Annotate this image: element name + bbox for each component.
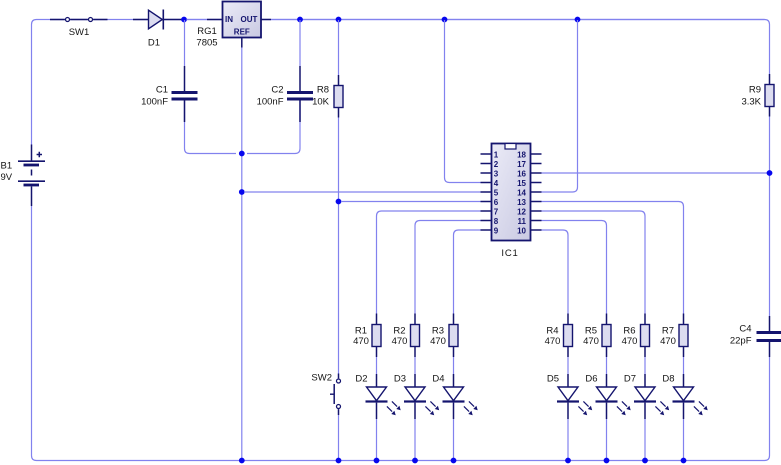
svg-text:R2: R2 bbox=[393, 326, 405, 337]
svg-text:D5: D5 bbox=[547, 374, 559, 385]
wire R9 to OSC node bbox=[769, 117, 771, 317]
wire pin16 OSC bbox=[542, 172, 770, 174]
svg-text:RG1: RG1 bbox=[197, 26, 217, 37]
wire D6 to rail bbox=[606, 419, 608, 461]
svg-text:R7: R7 bbox=[662, 326, 674, 337]
svg-text:D2: D2 bbox=[355, 374, 367, 385]
pin 7 bbox=[481, 210, 492, 212]
resistor R8 bbox=[334, 75, 343, 118]
wire R3 to D4 bbox=[453, 357, 455, 374]
svg-text:470: 470 bbox=[392, 336, 408, 347]
top rail 5V bbox=[32, 20, 770, 146]
node Vss ground bbox=[239, 189, 245, 195]
resistor R2 bbox=[411, 314, 420, 358]
pin 12 bbox=[531, 210, 542, 212]
resistor R9 bbox=[765, 74, 774, 117]
wire D2 to rail bbox=[376, 419, 378, 461]
svg-text:C4: C4 bbox=[739, 324, 751, 335]
node SW2 bottom bbox=[336, 458, 342, 464]
svg-text:SW2: SW2 bbox=[311, 373, 332, 384]
capacitor C1 bbox=[172, 66, 198, 122]
pin 10 bbox=[531, 229, 542, 231]
svg-text:18: 18 bbox=[517, 150, 526, 159]
wire C2 branch bbox=[299, 20, 301, 66]
svg-text:470: 470 bbox=[545, 336, 561, 347]
svg-text:R5: R5 bbox=[585, 326, 597, 337]
wire D3 to rail bbox=[414, 419, 416, 461]
svg-text:D7: D7 bbox=[624, 374, 636, 385]
wire R1 to D2 bbox=[376, 357, 378, 374]
LED D2 bbox=[366, 374, 401, 419]
node pin6 bbox=[336, 199, 342, 205]
resistor R1 bbox=[372, 314, 381, 358]
svg-text:470: 470 bbox=[583, 336, 599, 347]
wire R7 to D8 bbox=[683, 357, 685, 374]
svg-text:R9: R9 bbox=[749, 85, 761, 96]
svg-text:22pF: 22pF bbox=[730, 336, 752, 347]
node ground rail bbox=[239, 458, 245, 464]
pin 1 bbox=[481, 153, 492, 155]
wire pin13 to R7 bbox=[542, 202, 684, 314]
svg-text:OUT: OUT bbox=[241, 15, 258, 24]
LED D7 bbox=[634, 374, 669, 419]
node D4 rail bbox=[451, 458, 457, 464]
wire D5 to rail bbox=[567, 419, 569, 461]
wire D8 to rail bbox=[683, 419, 685, 461]
svg-text:REF: REF bbox=[234, 28, 250, 37]
LED D3 bbox=[404, 374, 439, 419]
svg-text:R4: R4 bbox=[546, 326, 558, 337]
node MCLR top bbox=[442, 17, 448, 23]
wire VDD to pin14 bbox=[542, 20, 578, 192]
svg-text:7: 7 bbox=[494, 207, 499, 216]
svg-text:9V: 9V bbox=[1, 172, 13, 183]
svg-text:13: 13 bbox=[517, 198, 526, 207]
wire pin12 to R6 bbox=[542, 211, 646, 314]
pin 9 bbox=[481, 229, 492, 231]
svg-text:14: 14 bbox=[517, 188, 526, 197]
switch SW1 bbox=[50, 18, 108, 22]
op IC1 chip body bbox=[492, 144, 531, 241]
svg-text:7805: 7805 bbox=[196, 38, 217, 49]
wire SW2 to rail bbox=[338, 415, 340, 461]
pin 13 bbox=[531, 201, 542, 203]
pin 16 bbox=[531, 172, 542, 174]
node D8 rail bbox=[681, 458, 687, 464]
svg-text:10: 10 bbox=[517, 226, 526, 235]
svg-text:4: 4 bbox=[494, 179, 499, 188]
pin 14 bbox=[531, 191, 542, 193]
svg-text:100nF: 100nF bbox=[141, 97, 168, 108]
resistor R7 bbox=[679, 314, 688, 358]
LED D6 bbox=[596, 374, 631, 419]
LED D8 bbox=[673, 374, 708, 419]
node D3 rail bbox=[412, 458, 418, 464]
svg-text:3: 3 bbox=[494, 169, 499, 178]
svg-text:470: 470 bbox=[660, 336, 676, 347]
wire D7 to rail bbox=[644, 419, 646, 461]
svg-text:16: 16 bbox=[517, 169, 526, 178]
pin REF lead bbox=[241, 38, 243, 48]
svg-text:12: 12 bbox=[517, 207, 526, 216]
node ground-caps bbox=[239, 151, 245, 157]
wire to RG1 IN bbox=[187, 19, 208, 21]
wire R2 to D3 bbox=[414, 357, 416, 374]
pin 18 bbox=[531, 153, 542, 155]
capacitor C4 bbox=[757, 316, 781, 357]
node D7 rail bbox=[642, 458, 648, 464]
node D6 rail bbox=[604, 458, 610, 464]
LED D5 bbox=[557, 374, 592, 419]
wire C1 branch bbox=[184, 20, 186, 66]
node R8 top bbox=[336, 17, 342, 23]
pin 6 bbox=[481, 201, 492, 203]
wire pin8 to R2 bbox=[415, 221, 481, 314]
resistor R3 bbox=[449, 314, 458, 358]
svg-text:470: 470 bbox=[430, 336, 446, 347]
wire pin10 to R4 bbox=[542, 230, 569, 314]
pin 8 bbox=[481, 220, 492, 222]
svg-text:C1: C1 bbox=[156, 85, 168, 96]
svg-text:470: 470 bbox=[353, 336, 369, 347]
wire pin7 to R1 bbox=[377, 211, 481, 314]
svg-text:R8: R8 bbox=[317, 85, 329, 96]
node after D1 bbox=[181, 17, 187, 23]
wire Vss to pin5 bbox=[244, 191, 481, 193]
svg-text:470: 470 bbox=[622, 336, 638, 347]
LED D4 bbox=[443, 374, 478, 419]
svg-text:5: 5 bbox=[494, 188, 499, 197]
svg-text:D8: D8 bbox=[662, 374, 674, 385]
pin 5 bbox=[481, 191, 492, 193]
svg-text:3.3K: 3.3K bbox=[741, 97, 761, 108]
wire REF ground line bbox=[241, 48, 243, 461]
wire left rail lower bbox=[32, 206, 770, 461]
node D2 rail bbox=[374, 458, 380, 464]
resistor R6 bbox=[641, 314, 650, 358]
pin 3 bbox=[481, 172, 492, 174]
node D5 rail bbox=[565, 458, 571, 464]
svg-text:100nF: 100nF bbox=[257, 97, 284, 108]
svg-text:15: 15 bbox=[517, 179, 526, 188]
resistor R5 bbox=[602, 314, 611, 358]
wire pin9 to R3 bbox=[454, 230, 481, 314]
pin 17 bbox=[531, 163, 542, 165]
svg-text:R6: R6 bbox=[623, 326, 635, 337]
svg-text:11: 11 bbox=[518, 217, 527, 226]
wire R5 to D6 bbox=[606, 357, 608, 374]
svg-text:10K: 10K bbox=[312, 97, 330, 108]
node VDD top bbox=[575, 17, 581, 23]
svg-text:C2: C2 bbox=[271, 85, 283, 96]
svg-text:IN: IN bbox=[225, 15, 233, 24]
wire pin11 to R5 bbox=[542, 221, 607, 314]
switch SW2 bbox=[330, 374, 341, 416]
regulator RG1 7805 bbox=[223, 2, 262, 38]
pin 11 bbox=[531, 220, 542, 222]
wire D4 to rail bbox=[453, 419, 455, 461]
svg-text:2: 2 bbox=[494, 160, 499, 169]
svg-text:D6: D6 bbox=[585, 374, 597, 385]
pin OUT lead bbox=[261, 19, 271, 21]
svg-text:R1: R1 bbox=[355, 326, 367, 337]
pin 4 bbox=[481, 182, 492, 184]
svg-text:D3: D3 bbox=[394, 374, 406, 385]
svg-text:6: 6 bbox=[494, 198, 499, 207]
svg-text:17: 17 bbox=[517, 160, 526, 169]
svg-text:B1: B1 bbox=[1, 161, 13, 172]
pin 2 bbox=[481, 163, 492, 165]
svg-text:1: 1 bbox=[494, 150, 499, 159]
resistor R4 bbox=[564, 314, 573, 358]
svg-text:8: 8 bbox=[494, 217, 499, 226]
svg-text:IC1: IC1 bbox=[501, 248, 518, 259]
node OUT bbox=[297, 17, 303, 23]
wire R4 to D5 bbox=[567, 357, 569, 374]
svg-text:D1: D1 bbox=[148, 38, 160, 49]
capacitor C2 bbox=[287, 66, 313, 122]
svg-text:R3: R3 bbox=[432, 326, 444, 337]
node OSC bbox=[767, 170, 773, 176]
wire R8 top bbox=[338, 20, 340, 75]
svg-text:9: 9 bbox=[494, 226, 499, 235]
wire MCLR to pin4 bbox=[445, 20, 481, 183]
svg-text:D4: D4 bbox=[432, 374, 444, 385]
diode D1 bbox=[133, 10, 183, 30]
wire R8 to SW2 bbox=[338, 118, 340, 374]
svg-text:SW1: SW1 bbox=[69, 27, 90, 38]
wire R6 to D7 bbox=[644, 357, 646, 374]
wire pin6 bbox=[341, 201, 481, 203]
pin 15 bbox=[531, 182, 542, 184]
battery B1 bbox=[18, 145, 45, 207]
